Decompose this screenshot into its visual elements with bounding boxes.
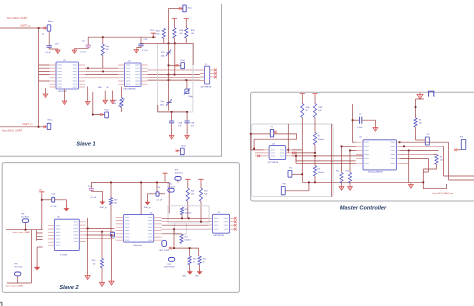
svg-text:10k: 10k: [113, 103, 116, 105]
ground at master top border: [417, 93, 423, 99]
wire Rbig to bus: [186, 80, 188, 89]
testpoint TP8 vertical: [162, 240, 167, 246]
svg-text:GND_pt: GND_pt: [100, 206, 107, 209]
junction U2 right: [403, 145, 405, 147]
wire R1B down: [314, 118, 316, 132]
junction U2-J1 crossings: [168, 74, 170, 76]
svg-text:110k: 110k: [160, 104, 164, 106]
svg-text:C18: C18: [55, 44, 60, 46]
wire U4 right bus: [292, 150, 364, 156]
no-connect mark U4 right: [292, 152, 295, 155]
ground below U2 right: [409, 183, 414, 188]
ground below R18: [99, 281, 104, 286]
no-connect mark before Rbus: [44, 27, 47, 30]
wire slave2 lower-left vertical: [7, 230, 32, 283]
junction TPad2 wire: [92, 114, 94, 116]
junction slave2 top rail: [110, 182, 112, 184]
svg-text:Master Controller: Master Controller: [340, 205, 387, 211]
wire U2 left pin fans: [296, 146, 356, 172]
svg-text:Rsp: Rsp: [161, 101, 164, 103]
wire U5 to U6 bus: [86, 228, 115, 235]
wire U6 to J2 bus light: [162, 222, 213, 230]
svg-text:120ohm: 120ohm: [318, 172, 325, 174]
wire gnd drop x102 through R18: [101, 232, 103, 281]
svg-text:TPad: TPad: [181, 145, 186, 147]
wire TPad2: [93, 92, 105, 115]
junction VDD rail at Rup: [102, 36, 104, 38]
junction 3.3V node: [41, 199, 43, 201]
no-connect mark U4 left: [257, 155, 260, 158]
wire right bus verticals: [409, 142, 474, 183]
junction TP6: [25, 229, 27, 231]
power VDD symbol: [151, 33, 156, 37]
svg-text:1uF: 1uF: [191, 126, 195, 128]
svg-text:0.1 uF: 0.1 uF: [80, 51, 86, 53]
wire R13 down: [349, 183, 351, 185]
wire U6 to J2 bus: [162, 218, 213, 225]
wire C3 left lead: [353, 119, 360, 121]
wire R16 connect: [181, 215, 183, 219]
resistor Rbig: [185, 89, 189, 94]
svg-text:0.1 uF: 0.1 uF: [157, 199, 163, 201]
wire R24 to ground: [199, 265, 201, 272]
wire left bus vertical to U1: [38, 28, 40, 127]
resistor R4 master: [435, 155, 438, 165]
pale sheet box Slave1: [158, 43, 193, 112]
svg-text:U2: U2: [128, 60, 132, 62]
svg-text:Y1: Y1: [270, 127, 272, 129]
wire U1 to U2 bus: [85, 68, 118, 74]
svg-text:10k: 10k: [204, 194, 207, 196]
svg-text:QST7MPJB: QST7MPJB: [213, 235, 224, 237]
resistor R23: [188, 256, 191, 265]
svg-text:R17: R17: [184, 236, 187, 238]
wire C19 to GND_pt: [92, 190, 103, 201]
svg-text:QST7MPJB: QST7MPJB: [268, 162, 279, 164]
wire TP6 stem: [25, 223, 27, 230]
svg-text:4k: 4k: [203, 262, 205, 264]
svg-text:UART_rx: UART_rx: [22, 122, 33, 126]
power bar above R21: [185, 179, 190, 182]
wire C3 to ground: [362, 120, 375, 126]
testpoint TP8 horizontal: [168, 258, 174, 262]
svg-text:TP9: TP9: [175, 169, 178, 171]
junction bottom rail: [171, 111, 173, 113]
wire C17 to ground: [74, 47, 88, 48]
pale sheet box slave2 lower: [175, 223, 187, 234]
wire R12 down: [341, 183, 343, 185]
resistor R13 with ground: [348, 173, 351, 184]
svg-text:R21: R21: [191, 190, 194, 192]
svg-text:QST7MPJB: QST7MPJB: [201, 87, 212, 89]
svg-text:0.1 uF: 0.1 uF: [142, 50, 148, 52]
wire vertical bus x168: [168, 8, 170, 110]
svg-text:R4A: R4A: [156, 30, 160, 33]
svg-text:10k: 10k: [191, 33, 194, 35]
ground below U1 right: [64, 89, 66, 100]
pale sheet box slave2 upper: [168, 206, 209, 223]
junction U5-U6: [87, 228, 89, 230]
svg-text:10k: 10k: [106, 49, 109, 51]
svg-text:C16: C16: [144, 39, 149, 41]
wire U1 to U2 bus light: [85, 71, 118, 77]
svg-text:VDD: VDD: [150, 30, 155, 32]
wire master top stub: [416, 98, 425, 99]
wire TPad bottom: [177, 150, 181, 152]
resistor R24: [198, 256, 201, 265]
wire U2 to J1 bus light: [148, 70, 201, 77]
ground below C18: [56, 49, 61, 54]
potentiometer R5C: [166, 50, 171, 57]
wire TPb to bus: [285, 182, 309, 191]
connector Vbus top: [183, 5, 186, 12]
svg-text:100k: 100k: [155, 34, 159, 36]
wire mid rail y43: [140, 43, 193, 65]
svg-text:4k: 4k: [306, 110, 308, 112]
svg-text:Slave 1: Slave 1: [76, 142, 95, 148]
svg-text:TPad: TPad: [180, 60, 185, 62]
no-connect mark TPad2: [100, 113, 103, 116]
svg-text:GND: GND: [195, 276, 200, 278]
svg-text:10k: 10k: [114, 203, 117, 205]
svg-text:10k: 10k: [419, 123, 422, 125]
junction R3 top: [415, 106, 417, 108]
wire master mid vertical: [331, 124, 333, 197]
wire 3.3V down bus: [41, 194, 43, 230]
junction U2 left fans: [295, 155, 297, 157]
wire UART_rx from edge: [0, 126, 47, 128]
svg-text:GND: GND: [182, 276, 187, 278]
svg-text:4k: 4k: [93, 263, 95, 265]
svg-text:TPc: TPc: [426, 134, 429, 136]
wire VDD rail: [88, 36, 156, 38]
svg-text:Rbus: Rbus: [48, 119, 53, 121]
power bar above R1A: [300, 94, 305, 97]
resistor R16: [180, 207, 183, 214]
no-connect marks J2: [234, 217, 237, 220]
svg-text:ATmega4809SO: ATmega4809SO: [368, 171, 383, 174]
ground below C4B: [186, 123, 188, 134]
junction master low rail: [308, 181, 310, 183]
wire U5 to U6 bus light: [86, 232, 115, 239]
pale sheet box master: [252, 124, 333, 196]
svg-text:100ohm: 100ohm: [185, 212, 192, 214]
svg-text:10k: 10k: [191, 194, 194, 196]
junction mid rail: [168, 42, 170, 44]
wire J1 left pins: [200, 70, 205, 81]
ground GND_pt left: [100, 202, 106, 205]
wire TP9 stem: [177, 180, 179, 182]
svg-text:0.1 uF: 0.1 uF: [91, 197, 97, 199]
svg-text:R4: R4: [318, 169, 320, 171]
resistor R2: [313, 133, 316, 145]
resistor R4A: [162, 28, 165, 38]
svg-text:R13: R13: [346, 170, 349, 172]
svg-text:C4B: C4B: [191, 123, 195, 125]
no-connect mark Y1: [274, 131, 277, 134]
potentiometer Rsp: [166, 99, 172, 105]
resistor R12 with ground: [340, 173, 343, 184]
wire U2 right bus: [400, 142, 448, 158]
wire R2 chain: [314, 132, 316, 166]
wire TPa to bus: [292, 173, 302, 175]
svg-text:0.1 uF: 0.1 uF: [45, 52, 51, 54]
junction Y1 wire at border: [250, 133, 252, 135]
wire TP5 stem: [17, 276, 19, 283]
svg-text:TPd: TPd: [460, 136, 463, 138]
wire UART_tx from edge: [0, 27, 47, 29]
ground below R24: [197, 271, 203, 274]
wire bottom loop slave2: [171, 229, 199, 256]
wire C18 to ground: [49, 47, 58, 49]
svg-text:110k: 110k: [161, 55, 165, 57]
svg-text:R5B: R5B: [191, 30, 195, 32]
wire vertical bus x174: [174, 43, 176, 74]
svg-text:1k: 1k: [42, 33, 44, 35]
svg-text:DAC088S085: DAC088S085: [124, 87, 137, 90]
power bar above R5A: [172, 19, 177, 21]
wire U2 to J1 bus: [148, 75, 201, 81]
svg-text:R19: R19: [114, 199, 117, 201]
svg-text:R5A: R5A: [179, 29, 183, 32]
resistor R17: [180, 234, 183, 243]
power bar above R1B: [312, 94, 317, 97]
ground below U1 left: [45, 88, 47, 93]
svg-text:from MCU UART: from MCU UART: [2, 129, 23, 133]
power 3.3V symbol: [39, 192, 44, 194]
potentiometer Rpot (left): [120, 98, 123, 108]
wire 3.3V to C18b: [42, 199, 52, 201]
svg-text:ILT1181: ILT1181: [60, 255, 68, 257]
wire Vbus net to bus: [169, 7, 183, 9]
resistor R1B: [313, 104, 316, 118]
svg-text:TPad: TPad: [104, 109, 108, 111]
resistor R3 master: [414, 118, 417, 127]
resistor R22: [199, 188, 202, 201]
resistor R18: [100, 258, 103, 267]
resistor Rbus (top): [47, 25, 51, 31]
wire gnd drop x111: [111, 235, 113, 280]
no-connect mark before Rbus2: [43, 126, 46, 129]
svg-text:R5C: R5C: [161, 52, 165, 54]
wire Rup to bus: [102, 55, 104, 68]
power bar above R5B: [184, 19, 189, 21]
resistor R21: [186, 188, 189, 201]
capacitor C4A: [171, 112, 173, 121]
wire slave2 left bus vertical: [37, 230, 43, 241]
wire slave2 top rail: [92, 182, 170, 232]
ground below U2: [87, 87, 89, 101]
ground GND_pt right: [148, 194, 157, 202]
svg-text:from_slave_UART: from_slave_UART: [13, 231, 31, 234]
junction U1-U2 wires: [87, 67, 89, 69]
resistor Rup: [101, 44, 104, 55]
capacitor C4B: [186, 112, 188, 121]
resistor R1A: [301, 104, 304, 118]
junction bottom loop: [189, 247, 191, 249]
svg-text:R24: R24: [203, 259, 206, 261]
svg-text:Test Point: Test Point: [21, 215, 30, 218]
svg-text:Rbig: Rbig: [189, 96, 193, 98]
junction UART_rx wire: [38, 126, 40, 128]
junction R2 chain: [314, 152, 316, 154]
power bar TP9 area: [162, 173, 167, 176]
ground below R13: [348, 185, 353, 190]
ground right of C3: [373, 126, 378, 131]
wire R17 connect: [162, 233, 182, 236]
wire Rbus to C18: [48, 31, 50, 45]
no-connect mark bottom loop: [169, 247, 172, 250]
svg-text:Rup: Rup: [106, 46, 111, 48]
wire R4A bottom: [163, 38, 165, 43]
wire U4 left pins light: [255, 153, 264, 156]
svg-text:Test Point: Test Point: [14, 266, 23, 269]
svg-text:UART_tx: UART_tx: [20, 23, 31, 27]
series resistor box U5-U6: [111, 232, 115, 237]
svg-text:C4A: C4A: [178, 122, 182, 125]
ground below R23: [187, 271, 193, 274]
svg-text:TEST POINT: TEST POINT: [159, 250, 170, 252]
ground below C16 left: [136, 46, 141, 48]
svg-text:4k: 4k: [193, 262, 195, 264]
svg-text:10k: 10k: [318, 110, 321, 112]
svg-text:1uF: 1uF: [178, 126, 182, 128]
wire TPd left: [457, 149, 462, 151]
junction Y1 net to U4: [253, 148, 255, 150]
svg-text:120ohm: 120ohm: [318, 139, 325, 141]
junction C3 node: [352, 119, 354, 121]
svg-text:0.1uF: 0.1uF: [357, 127, 363, 129]
wire Rpot stem: [121, 87, 123, 112]
svg-text:Rbus: Rbus: [48, 21, 53, 23]
svg-text:J1: J1: [205, 64, 208, 66]
wire Y1 net: [251, 134, 297, 149]
junction U6-J2: [188, 217, 190, 219]
svg-text:TP5: TP5: [14, 264, 17, 266]
junction right loop: [422, 181, 424, 183]
partial panel corner bottom-left: [0, 303, 2, 306]
svg-text:10k: 10k: [179, 33, 182, 35]
no-connect marks J1 right: [214, 69, 217, 72]
svg-text:TP10: TP10: [167, 184, 172, 186]
junction VDD rail at VDD symbol: [152, 36, 154, 38]
svg-text:R23: R23: [193, 259, 196, 261]
svg-text:Test Point: Test Point: [175, 171, 184, 174]
svg-text:10k: 10k: [440, 160, 443, 162]
svg-text:R12: R12: [336, 170, 339, 172]
ground below C4A: [171, 123, 173, 134]
wire master mid bus: [288, 124, 355, 161]
svg-text:C3: C3: [359, 113, 361, 115]
ground below x111: [109, 280, 114, 285]
svg-text:0.1 uF: 0.1 uF: [51, 206, 57, 208]
wire slave2 left input: [6, 229, 43, 231]
capacitor C3 master: [353, 104, 356, 142]
wire R23 to ground: [189, 265, 191, 272]
svg-text:R6A: R6A: [98, 86, 102, 89]
svg-text:GND_pt: GND_pt: [144, 206, 151, 209]
svg-text:R18: R18: [92, 260, 95, 262]
wire TPc left: [416, 139, 426, 141]
junction on UART_tx wire: [38, 27, 40, 29]
wire R4b to low rail: [314, 176, 316, 182]
svg-text:ALT1181: ALT1181: [59, 90, 68, 93]
svg-text:TP6: TP6: [21, 213, 24, 215]
svg-text:TEST POINT: TEST POINT: [164, 266, 175, 268]
resistor R19 inline: [109, 198, 112, 205]
svg-text:R22: R22: [204, 190, 207, 192]
resistor R5A: [173, 21, 175, 28]
svg-text:R16: R16: [185, 209, 188, 211]
ground left of C17: [72, 49, 77, 54]
svg-text:from MCU UART port: from MCU UART port: [433, 192, 454, 195]
panel frame Slave 2: [2, 163, 239, 293]
svg-text:R3: R3: [419, 119, 421, 121]
ground below R12: [339, 185, 344, 190]
wire C18b to ground: [55, 200, 67, 208]
panel frame Master Controller: [251, 92, 474, 201]
ground below x87: [85, 274, 90, 279]
wire U4 pin1 from Y1 node: [251, 134, 264, 150]
jumper on master top border: [429, 91, 434, 96]
wire master right loop: [423, 159, 446, 189]
wire bottom rail y112: [158, 105, 187, 112]
no-connect mark Vbus wire: [179, 7, 182, 10]
svg-text:100ohm: 100ohm: [184, 240, 191, 242]
panel frame Slave 1: [0, 4, 222, 156]
svg-text:4k: 4k: [107, 87, 109, 89]
svg-text:from_slave_UART: from_slave_UART: [6, 285, 24, 288]
ground right of C18b: [63, 208, 69, 211]
resistor R5B: [185, 21, 187, 28]
svg-text:R2: R2: [318, 136, 320, 138]
svg-text:R4: R4: [440, 156, 442, 158]
resistor R4b 120ohm: [313, 166, 316, 176]
testpad TPad (upper): [181, 63, 185, 69]
wire U2 right bus light: [400, 146, 443, 163]
svg-text:Slave 2: Slave 2: [59, 285, 79, 291]
wire gnd drop x87: [87, 218, 89, 274]
svg-text:C17: C17: [82, 40, 87, 42]
ground below U5: [36, 247, 38, 267]
wire R1A down: [301, 118, 303, 183]
wire TPad-c: [169, 64, 181, 66]
junction U4 right: [287, 149, 289, 151]
svg-text:from MCU UART: from MCU UART: [7, 16, 28, 20]
svg-text:Vbus: Vbus: [188, 8, 192, 10]
wire master low rail: [302, 181, 423, 183]
svg-text:NeoPixel: NeoPixel: [134, 245, 143, 247]
wire U1 left pin fan: [39, 65, 50, 81]
svg-text:TPb: TPb: [282, 184, 285, 186]
power bar above R22: [198, 179, 203, 182]
junction TPa: [301, 173, 303, 175]
